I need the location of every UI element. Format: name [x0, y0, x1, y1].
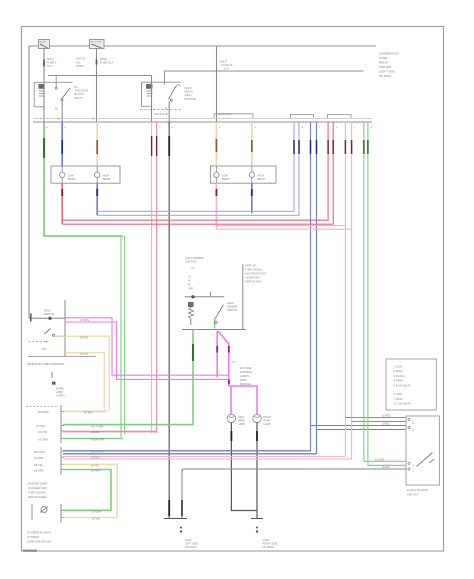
svg-text:LAMP: LAMP: [238, 422, 245, 426]
connector bracket group 3: [61, 504, 64, 523]
wire lavender low beam pair: [97, 122, 299, 215]
label HOT AT ALL TIMES: [76, 57, 86, 69]
svg-text:18 BLU: 18 BLU: [382, 423, 391, 426]
wire tan park feed loop: [55, 336, 110, 414]
svg-text:18 LT GRN: 18 LT GRN: [91, 425, 104, 428]
svg-text:2: 2: [413, 464, 415, 467]
svg-text:1 LOW: 1 LOW: [394, 365, 403, 369]
wire green loop: [63, 470, 111, 514]
park bulb left: [227, 414, 245, 426]
svg-text:HDLP FSE: HDLP FSE: [91, 41, 102, 43]
svg-text:C2: C2: [192, 267, 196, 270]
svg-text:BEAM: BEAM: [222, 177, 229, 181]
svg-text:A: A: [40, 118, 42, 121]
svg-text:5: 5: [413, 430, 415, 433]
svg-text:18 DK GRN: 18 DK GRN: [91, 439, 104, 442]
text block bottom left title: [27, 531, 52, 544]
ambient light sensor: [32, 504, 48, 520]
svg-text:HDLP: HDLP: [100, 57, 107, 61]
svg-text:INTERIOR LAMPS DIMMER: INTERIOR LAMPS DIMMER: [27, 362, 64, 366]
wire black bulb grounds: [231, 423, 257, 519]
svg-text:LOW: LOW: [222, 174, 228, 178]
svg-text:D8 YEL: D8 YEL: [34, 463, 43, 467]
svg-text:HDLP: HDLP: [220, 60, 227, 64]
svg-text:C5 TAIL: C5 TAIL: [36, 424, 46, 428]
text block park lamp note: [28, 482, 47, 500]
svg-text:(DRL): (DRL): [185, 93, 192, 97]
svg-text:7 HIGH: 7 HIGH: [394, 397, 403, 401]
wire tan to right headlamp B: [251, 122, 253, 166]
svg-text:HDLP: HDLP: [44, 309, 51, 313]
svg-text:C: C: [100, 127, 102, 129]
svg-text:18 YEL: 18 YEL: [91, 464, 100, 467]
svg-text:UNDERHOOD: UNDERHOOD: [379, 52, 400, 56]
svg-text:B: B: [65, 127, 67, 129]
headlamp right box: [211, 166, 277, 183]
svg-text:18 BLK: 18 BLK: [382, 466, 391, 469]
svg-text:LOW: LOW: [68, 174, 74, 178]
wire pink pair relay K2 down: [152, 122, 157, 433]
legend text top right: [379, 52, 400, 79]
svg-text:FLASH-TO-PASS: FLASH-TO-PASS: [407, 488, 428, 492]
wire pink row pair: [63, 456, 352, 459]
svg-text:10 A: 10 A: [224, 67, 230, 71]
svg-text:FUSE -: FUSE -: [379, 56, 389, 60]
svg-text:HAZARD LAMP: HAZARD LAMP: [28, 482, 47, 486]
wire black multifunction ground: [182, 468, 406, 470]
svg-text:18 YEL: 18 YEL: [92, 518, 101, 521]
svg-text:OF DASH: OF DASH: [185, 545, 197, 549]
fuse F1: [39, 40, 50, 49]
wire dimmer common: [243, 264, 266, 330]
svg-text:3 FLASH: 3 FLASH: [394, 374, 405, 378]
svg-text:18 GRN: 18 GRN: [375, 459, 384, 462]
svg-text:CENTER: CENTER: [379, 65, 392, 69]
wire left feed from L1 down to headlamp switch: [28, 46, 30, 318]
multifunction switch box: [406, 416, 439, 485]
svg-text:SUPPLY: SUPPLY: [56, 394, 66, 398]
wire blue row pair: [63, 451, 317, 454]
connector bracket group 2: [61, 447, 64, 475]
svg-text:LAMP: LAMP: [56, 390, 63, 394]
svg-text:TURN SIGNAL: TURN SIGNAL: [245, 268, 263, 272]
wire magenta park lamps: [65, 318, 229, 380]
svg-text:18 PNK: 18 PNK: [91, 431, 100, 434]
svg-text:H: H: [302, 127, 304, 129]
svg-text:C2: C2: [232, 361, 236, 364]
svg-text:M: M: [371, 127, 373, 129]
svg-text:K: K: [336, 127, 338, 129]
label relay K1: [75, 85, 89, 100]
svg-text:C2 PNK: C2 PNK: [34, 456, 44, 460]
park bulb right: [253, 414, 272, 426]
label relay K2: [185, 86, 197, 101]
svg-text:BEAM: BEAM: [103, 177, 110, 181]
svg-text:OF ENG): OF ENG): [379, 74, 392, 78]
svg-text:18 TAN: 18 TAN: [80, 336, 88, 339]
svg-text:RELAY: RELAY: [185, 90, 194, 94]
wire tan to left headlamp: [96, 122, 98, 166]
svg-text:1998 CHEVROLET: 1998 CHEVROLET: [27, 540, 52, 544]
dimmer switch assembly: [182, 256, 246, 330]
wire blue left headlamp down: [96, 183, 98, 215]
svg-text:5 B (W-HDLP): 5 B (W-HDLP): [394, 383, 411, 387]
svg-text:B1 STOP: B1 STOP: [34, 450, 45, 454]
svg-text:LAMPS: LAMPS: [240, 374, 249, 378]
wire black relay K2 down to ground: [168, 122, 170, 519]
svg-text:40 A: 40 A: [47, 64, 53, 68]
wire fuse F2 down to bulkhead: [96, 49, 98, 123]
svg-text:MODULE: MODULE: [185, 97, 197, 101]
svg-text:.: .: [424, 435, 425, 438]
svg-text:(LEFT SIDE: (LEFT SIDE: [379, 70, 395, 74]
svg-text:HIGH: HIGH: [103, 174, 110, 178]
wire magenta dimmer to park bulbs: [217, 331, 257, 414]
svg-text:EXTERIOR LIGHT: EXTERIOR LIGHT: [27, 531, 51, 535]
svg-text:LEVER AND: LEVER AND: [245, 276, 260, 280]
wire green dimmer to connector: [63, 330, 193, 425]
svg-text:MULTIFUNCTION: MULTIFUNCTION: [245, 272, 266, 276]
svg-text:G: G: [254, 127, 256, 129]
svg-text:BLOCK: BLOCK: [75, 92, 84, 96]
svg-text:JUNCTION: JUNCTION: [75, 89, 89, 93]
svg-text:A6 GRN: A6 GRN: [34, 468, 44, 472]
wire blue to left headlamp: [61, 122, 63, 166]
svg-text:J: J: [319, 127, 320, 129]
wire green row C: [63, 439, 123, 442]
svg-text:A2 GRN: A2 GRN: [38, 437, 48, 441]
svg-text:MAXI: MAXI: [47, 57, 54, 61]
svg-text:OF DASH: OF DASH: [263, 545, 275, 549]
wire pink row B: [63, 431, 157, 434]
svg-text:MODULE: MODULE: [240, 382, 251, 386]
svg-text:PARK: PARK: [238, 419, 245, 423]
ground G103: [164, 469, 198, 549]
svg-text:G103: G103: [185, 538, 192, 542]
svg-text:DAYTIME: DAYTIME: [240, 366, 252, 370]
svg-text:18 TAN: 18 TAN: [80, 353, 88, 356]
svg-text:HDLP: HDLP: [185, 86, 192, 90]
wire HDLP fuse feed x=216: [216, 46, 218, 122]
wire green fuse1 down and across: [44, 122, 123, 236]
svg-text:E: E: [172, 127, 174, 129]
svg-text:FUSE 15: FUSE 15: [222, 63, 233, 67]
headlamp switch assembly: [26, 300, 96, 407]
svg-text:FL: FL: [188, 283, 192, 286]
wire pink pair right side: [216, 122, 406, 459]
svg-text:18 ORN: 18 ORN: [80, 319, 89, 322]
svg-text:BEAM: BEAM: [257, 177, 264, 181]
wire blue right headlamp down: [251, 183, 253, 213]
svg-text:(DRL): (DRL): [240, 378, 247, 382]
svg-text:TIMES: TIMES: [76, 64, 84, 68]
svg-text:ALL: ALL: [76, 60, 81, 64]
svg-text:C100 E10 D2: C100 E10 D2: [153, 113, 169, 116]
svg-text:DOME: DOME: [56, 387, 64, 391]
bulkhead connector C100: [33, 113, 373, 129]
svg-text:LO: LO: [188, 275, 191, 278]
svg-text:HIGH: HIGH: [257, 174, 264, 178]
svg-text:DIMMER: DIMMER: [227, 305, 238, 309]
bus L2: [164, 70, 364, 72]
svg-text:HI: HI: [188, 279, 191, 282]
svg-text:RIGHT SIDE: RIGHT SIDE: [263, 541, 278, 545]
svg-text:SWITCH: SWITCH: [227, 308, 237, 312]
svg-text:18 RED: 18 RED: [382, 415, 391, 418]
svg-text:1: 1: [413, 470, 415, 473]
svg-text:LAMP: LAMP: [264, 422, 271, 426]
svg-text:D: D: [159, 127, 161, 129]
wire fuse F1 down to bulkhead: [43, 49, 45, 123]
svg-text:LEFT SIDE: LEFT SIDE: [185, 541, 198, 545]
svg-text:18 DK BLU: 18 DK BLU: [91, 451, 104, 454]
svg-text:86: 86: [55, 109, 58, 111]
left row labels: [34, 410, 49, 472]
wire green pair right side: [364, 122, 406, 465]
svg-text:RIGHT: RIGHT: [264, 415, 272, 419]
svg-text:OFF: OFF: [188, 287, 193, 290]
wire long green vertical pair: [121, 236, 125, 438]
ground G104: [251, 519, 278, 549]
svg-text:FUSE 4: FUSE 4: [47, 61, 57, 65]
svg-text:MEGA: MEGA: [39, 40, 46, 43]
svg-text:SWITCH FEED: SWITCH FEED: [28, 495, 47, 499]
svg-text:LEFT: LEFT: [238, 415, 245, 419]
bus L3: [48, 75, 152, 77]
wire red high beam pair: [62, 122, 333, 224]
svg-text:A: A: [46, 126, 48, 129]
svg-text:HDLP DIMMER: HDLP DIMMER: [186, 256, 204, 260]
svg-text:6 LOW: 6 LOW: [394, 392, 403, 396]
wire green row A: [91, 425, 104, 428]
svg-text:HDLP: HDLP: [227, 301, 234, 305]
svg-text:18 GRN: 18 GRN: [91, 470, 100, 473]
legend box right: [386, 359, 436, 410]
svg-text:8 C (W-HDLP): 8 C (W-HDLP): [394, 402, 411, 406]
label fuse F1: [47, 57, 57, 68]
svg-text:OFF: OFF: [42, 347, 48, 351]
wire yellow loop: [63, 464, 117, 520]
svg-text:4 PARK: 4 PARK: [394, 379, 404, 383]
svg-text:18 GRN: 18 GRN: [92, 510, 101, 513]
wire labels at box: [375, 415, 391, 470]
label fuse F2: [100, 57, 114, 65]
svg-text:18 TAN: 18 TAN: [84, 412, 92, 415]
relay K1 headlamp: [34, 76, 72, 123]
svg-text:BEAM: BEAM: [68, 177, 75, 181]
svg-text:B+: B+: [75, 85, 79, 89]
svg-text:RELAY: RELAY: [75, 96, 84, 100]
svg-text:SWITCH: SWITCH: [407, 493, 418, 497]
svg-text:RELAY: RELAY: [379, 61, 389, 65]
svg-text:FLASHER AND: FLASHER AND: [28, 486, 47, 490]
headlamp left box: [51, 166, 120, 183]
relay K2 DRL: [140, 76, 181, 123]
wire red left headlamp down: [61, 183, 63, 224]
wire blue pair to flash switch: [63, 122, 406, 454]
svg-text:HOT AT: HOT AT: [76, 57, 86, 61]
wire pink right headlamp down: [215, 183, 217, 229]
label wire x=216: [220, 60, 233, 71]
svg-text:TURN SIGNAL: TURN SIGNAL: [28, 491, 47, 495]
svg-text:PARK: PARK: [264, 419, 271, 423]
svg-text:18 PNK: 18 PNK: [91, 457, 100, 460]
svg-text:FUSE 10 A: FUSE 10 A: [100, 61, 114, 65]
svg-text:SWITCH: SWITCH: [186, 260, 196, 264]
svg-text:D4 PNK: D4 PNK: [38, 430, 48, 434]
svg-text:G104: G104: [263, 538, 270, 542]
svg-text:PART OF: PART OF: [245, 264, 256, 268]
wire tan to right headlamp A: [215, 122, 217, 166]
svg-text:SWITCH: SWITCH: [44, 312, 54, 316]
svg-text:F: F: [219, 127, 221, 129]
bus L1 HOT AT ALL TIMES: [29, 45, 376, 47]
svg-text:SYSTEM: SYSTEM: [27, 535, 39, 539]
svg-text:8: 8: [413, 422, 415, 425]
svg-text:RUNNING: RUNNING: [240, 370, 252, 374]
svg-text:L: L: [354, 127, 356, 129]
fuse F2: [90, 40, 105, 49]
label multifunction switch: [407, 488, 428, 497]
svg-text:B6 PARK: B6 PARK: [38, 410, 49, 414]
connector bracket group 1: [61, 405, 64, 443]
svg-text:2 HIGH: 2 HIGH: [394, 369, 403, 373]
svg-text:SWITCH ASM: SWITCH ASM: [245, 280, 261, 284]
